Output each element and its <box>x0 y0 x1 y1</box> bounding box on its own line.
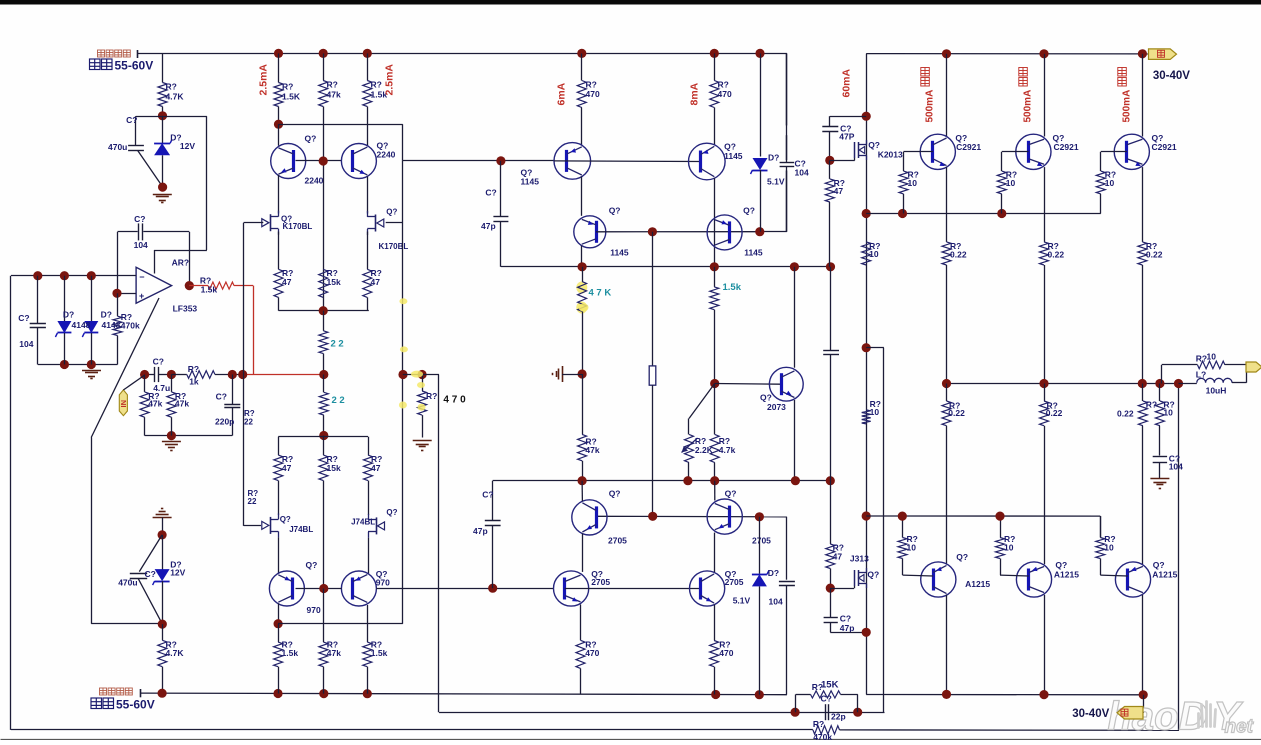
svg-text:R?: R? <box>327 80 338 90</box>
svg-text:2705: 2705 <box>608 536 627 546</box>
svg-text:C?: C? <box>821 694 832 704</box>
svg-text:J74BL: J74BL <box>351 518 375 527</box>
svg-text:A1215: A1215 <box>1152 570 1177 580</box>
svg-text:2240: 2240 <box>305 176 324 186</box>
svg-text:10uH: 10uH <box>1206 385 1227 395</box>
svg-text:470: 470 <box>586 89 600 99</box>
svg-text:R?: R? <box>1146 400 1157 410</box>
svg-text:1.5k: 1.5k <box>371 648 388 658</box>
svg-text:2705: 2705 <box>752 536 771 546</box>
svg-text:C?: C? <box>134 214 145 224</box>
svg-text:2 2: 2 2 <box>331 339 344 350</box>
svg-text:Q?: Q? <box>725 489 737 499</box>
svg-text:22: 22 <box>244 418 253 427</box>
svg-text:Q?: Q? <box>956 552 968 562</box>
svg-text:C?: C? <box>126 115 137 125</box>
svg-text:+: + <box>139 291 144 301</box>
svg-text:4.7K: 4.7K <box>166 92 185 102</box>
svg-text:10: 10 <box>1104 543 1114 553</box>
svg-text:47: 47 <box>282 277 292 287</box>
svg-text:30-40V: 30-40V <box>1153 70 1190 82</box>
svg-text:2 2: 2 2 <box>332 395 345 406</box>
svg-text:−: − <box>139 272 144 282</box>
svg-text:12V: 12V <box>170 568 185 578</box>
svg-text:Q?: Q? <box>743 206 755 216</box>
svg-text:J74BL: J74BL <box>289 525 313 534</box>
svg-text:1.5k: 1.5k <box>201 285 218 295</box>
svg-text:22p: 22p <box>831 712 846 722</box>
svg-text:15K: 15K <box>821 680 839 691</box>
svg-text:4148: 4148 <box>72 320 91 330</box>
svg-text:Q?: Q? <box>305 134 317 144</box>
svg-text:1.5K: 1.5K <box>282 92 301 102</box>
svg-text:R?: R? <box>813 719 824 729</box>
svg-text:D?: D? <box>63 310 74 320</box>
svg-text:R?: R? <box>188 364 199 374</box>
svg-text:220p: 220p <box>215 417 234 427</box>
svg-text:500mA: 500mA <box>925 90 936 123</box>
svg-text:K170BL: K170BL <box>283 222 313 231</box>
svg-text:C?: C? <box>153 357 164 367</box>
svg-text:IN: IN <box>119 400 128 408</box>
svg-text:C?: C? <box>216 392 227 402</box>
svg-text:R?: R? <box>718 80 729 90</box>
svg-text:Q?: Q? <box>1055 560 1067 570</box>
svg-text:C?: C? <box>482 490 493 500</box>
svg-text:1145: 1145 <box>744 248 763 258</box>
svg-text:47P: 47P <box>839 132 854 142</box>
svg-text:15k: 15k <box>327 463 341 473</box>
svg-text:1145: 1145 <box>610 248 629 258</box>
svg-text:4.7k: 4.7k <box>719 445 736 455</box>
svg-text:10: 10 <box>1004 543 1014 553</box>
svg-text:470: 470 <box>718 89 732 99</box>
svg-text:30-40V: 30-40V <box>1072 708 1109 720</box>
svg-text:Q?: Q? <box>306 560 318 570</box>
svg-text:1.5k: 1.5k <box>282 648 299 658</box>
svg-text:D?: D? <box>101 310 112 320</box>
svg-text:10: 10 <box>1207 352 1217 362</box>
svg-text:10: 10 <box>1006 178 1016 188</box>
svg-text:C?: C? <box>840 614 851 624</box>
svg-text:2.5mA: 2.5mA <box>384 64 396 96</box>
svg-text:0.22: 0.22 <box>1117 408 1134 418</box>
svg-text:0.22: 0.22 <box>1146 250 1163 260</box>
svg-text:1145: 1145 <box>724 151 743 161</box>
svg-text:5.1V: 5.1V <box>767 177 785 187</box>
svg-text:47k: 47k <box>327 90 341 100</box>
svg-text:2240: 2240 <box>377 150 396 160</box>
svg-text:Q?: Q? <box>609 206 621 216</box>
svg-text:12V: 12V <box>180 141 195 151</box>
svg-text:470: 470 <box>719 648 733 658</box>
svg-text:2705: 2705 <box>591 577 610 587</box>
svg-text:A1215: A1215 <box>965 579 990 589</box>
svg-text:104: 104 <box>134 240 148 250</box>
svg-text:10: 10 <box>1105 178 1115 188</box>
svg-text:470k: 470k <box>813 732 832 740</box>
svg-text:500mA: 500mA <box>1122 90 1133 123</box>
svg-text:C2921: C2921 <box>1152 142 1177 152</box>
svg-text:10: 10 <box>869 249 879 259</box>
svg-text:K2013: K2013 <box>878 150 903 160</box>
svg-text:2705: 2705 <box>725 577 744 587</box>
svg-text:0.22: 0.22 <box>1046 408 1063 418</box>
svg-text:Q?: Q? <box>609 489 621 499</box>
svg-text:47k: 47k <box>175 399 189 409</box>
svg-text:47k: 47k <box>327 648 341 658</box>
svg-text:47p: 47p <box>481 221 496 231</box>
svg-text:C2921: C2921 <box>956 142 981 152</box>
svg-text:1145: 1145 <box>521 177 540 187</box>
svg-text:K170BL: K170BL <box>379 242 409 251</box>
svg-text:10: 10 <box>907 543 917 553</box>
svg-text:47p: 47p <box>473 526 488 536</box>
svg-text:47k: 47k <box>585 445 599 455</box>
svg-text:8mA: 8mA <box>689 82 701 105</box>
svg-text:60mA: 60mA <box>841 68 853 97</box>
svg-text:Q?: Q? <box>867 570 879 580</box>
svg-text:2073: 2073 <box>767 402 786 412</box>
svg-text:net: net <box>1225 717 1254 738</box>
svg-text:470k: 470k <box>121 321 140 331</box>
svg-text:470: 470 <box>585 648 599 658</box>
svg-text:4 7 K: 4 7 K <box>589 288 612 299</box>
svg-text:1.5k: 1.5k <box>723 282 742 293</box>
svg-text:AR?: AR? <box>172 258 189 268</box>
svg-text:C?: C? <box>485 188 496 198</box>
svg-text:47: 47 <box>834 186 844 196</box>
svg-text:104: 104 <box>795 168 809 178</box>
svg-text:C?: C? <box>145 569 156 579</box>
svg-text:C?: C? <box>18 313 29 323</box>
svg-text:D?: D? <box>768 153 779 163</box>
svg-text:55-60V: 55-60V <box>115 59 154 73</box>
svg-text:104: 104 <box>1169 462 1183 472</box>
svg-text:55-60V: 55-60V <box>116 698 155 712</box>
svg-text:Q?: Q? <box>724 142 736 152</box>
svg-text:Q?: Q? <box>760 393 772 403</box>
svg-text:Q?: Q? <box>386 208 397 217</box>
svg-text:Q?: Q? <box>280 515 291 524</box>
svg-text:5.1V: 5.1V <box>733 595 751 605</box>
svg-text:R?: R? <box>1196 354 1207 364</box>
svg-text:970: 970 <box>307 605 321 615</box>
svg-text:47: 47 <box>371 463 381 473</box>
svg-text:47p: 47p <box>840 623 855 633</box>
svg-text:R?: R? <box>282 82 293 92</box>
svg-text:2.5mA: 2.5mA <box>258 64 270 96</box>
svg-text:0.22: 0.22 <box>1048 250 1065 260</box>
svg-text:Q?: Q? <box>1153 560 1165 570</box>
svg-text:Q?: Q? <box>868 140 880 150</box>
svg-text:6mA: 6mA <box>556 82 568 105</box>
svg-text:Q?: Q? <box>386 508 397 517</box>
svg-text:C2921: C2921 <box>1054 142 1079 152</box>
svg-text:0.22: 0.22 <box>948 408 965 418</box>
svg-text:470u: 470u <box>118 578 137 588</box>
svg-text:L?: L? <box>1196 370 1206 380</box>
svg-text:0.22: 0.22 <box>950 250 967 260</box>
svg-text:47: 47 <box>833 552 843 562</box>
svg-text:104: 104 <box>769 597 783 607</box>
svg-text:22: 22 <box>248 497 257 506</box>
svg-text:470u: 470u <box>108 142 127 152</box>
svg-text:R?: R? <box>166 82 177 92</box>
svg-text:R?: R? <box>371 80 382 90</box>
svg-text:10: 10 <box>908 178 918 188</box>
svg-text:47: 47 <box>371 277 381 287</box>
svg-text:970: 970 <box>376 578 390 588</box>
svg-text:1k: 1k <box>189 377 199 387</box>
svg-text:500mA: 500mA <box>1023 90 1034 123</box>
svg-text:A1215: A1215 <box>1054 570 1079 580</box>
svg-text:10: 10 <box>870 407 880 417</box>
svg-text:4 7 0: 4 7 0 <box>443 395 466 406</box>
svg-text:47k: 47k <box>148 399 162 409</box>
svg-text:J313: J313 <box>850 554 869 564</box>
svg-text:15k: 15k <box>327 277 341 287</box>
svg-text:10: 10 <box>1163 407 1173 417</box>
svg-text:47: 47 <box>282 463 292 473</box>
svg-text:4.7K: 4.7K <box>166 648 185 658</box>
svg-text:D?: D? <box>768 568 779 578</box>
svg-text:R?: R? <box>426 391 437 401</box>
svg-text:R?: R? <box>586 80 597 90</box>
svg-text:104: 104 <box>19 339 33 349</box>
svg-text:LF353: LF353 <box>173 304 198 314</box>
